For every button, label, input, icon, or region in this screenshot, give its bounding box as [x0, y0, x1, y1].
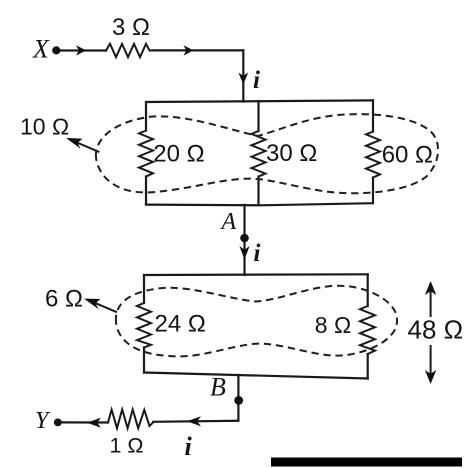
- svg-text:X: X: [32, 35, 50, 64]
- svg-text:10 Ω: 10 Ω: [20, 114, 69, 140]
- svg-text:i: i: [254, 240, 261, 267]
- svg-text:i: i: [185, 432, 193, 461]
- svg-text:1 Ω: 1 Ω: [110, 434, 144, 458]
- svg-text:8 Ω: 8 Ω: [315, 312, 351, 338]
- svg-text:i: i: [253, 67, 260, 94]
- svg-text:60 Ω: 60 Ω: [382, 142, 433, 169]
- svg-text:A: A: [220, 209, 237, 235]
- svg-text:B: B: [210, 373, 226, 402]
- svg-text:24 Ω: 24 Ω: [155, 311, 206, 338]
- svg-text:30 Ω: 30 Ω: [266, 140, 317, 167]
- svg-text:3 Ω: 3 Ω: [112, 14, 150, 41]
- svg-text:6 Ω: 6 Ω: [45, 286, 83, 313]
- svg-text:20 Ω: 20 Ω: [153, 141, 204, 168]
- svg-text:48 Ω: 48 Ω: [408, 315, 464, 345]
